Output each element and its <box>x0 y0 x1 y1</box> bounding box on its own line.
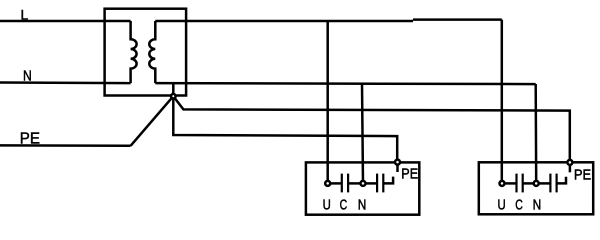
wire filter2 C4 jog up toward PE <box>557 177 566 184</box>
svg-text:C: C <box>340 197 348 214</box>
wire N drop to filter 1 <box>362 84 363 184</box>
earth node (N-PE bond junction) <box>171 94 176 99</box>
wire filter1 N to C2 <box>363 182 376 185</box>
filter box 1 enclosure <box>306 162 419 214</box>
wire PE branch 1 (node down then right to filter 1 PE) <box>173 96 397 160</box>
wire filter2 C3 to N <box>523 182 537 185</box>
capacitor C3 (filter 2, U-N) <box>517 174 523 193</box>
wire L secondary right segment (slight scan step) <box>413 18 502 21</box>
terminal N filter2 <box>534 181 539 186</box>
transformer T1 primary winding <box>131 21 137 83</box>
wire filter1 C2 jog up toward PE <box>383 177 393 184</box>
wire U drop to filter 2 <box>501 20 504 184</box>
wire N (neutral conductor from supply to transformer primary) <box>0 81 131 84</box>
svg-text:U: U <box>498 197 506 214</box>
wire filter2 U to C3 <box>502 182 516 185</box>
wire filter2 PE stub below terminal <box>569 165 572 173</box>
svg-text:PE: PE <box>401 165 418 182</box>
svg-text:L: L <box>21 6 29 22</box>
terminal PE filter1 <box>395 160 400 165</box>
wire filter1 C1 to N <box>348 182 363 185</box>
wire PE branch 2 (node diagonal then right to filter 2 PE) <box>173 96 570 160</box>
terminal PE filter2 <box>567 160 572 165</box>
wire earth node to PE conductor (diagonal bond) <box>131 96 174 146</box>
transformer T1 enclosure box <box>105 9 187 96</box>
capacitor C4 (filter 2, N-PE) <box>550 174 556 193</box>
wire N secondary (from secondary winding bottom, right) <box>155 83 535 84</box>
capacitor C2 (filter 1, N-PE) <box>377 174 383 193</box>
wire L secondary (from secondary winding top, right along top) <box>155 20 413 23</box>
wire PE (protective earth conductor) <box>0 144 131 147</box>
wire U drop to filter 1 <box>326 21 329 183</box>
terminal N filter1 <box>361 181 366 186</box>
filter box 2 enclosure <box>479 162 593 214</box>
svg-text:N: N <box>533 197 542 214</box>
wire N drop to filter 2 <box>534 84 537 183</box>
wire filter2 N to C4 <box>536 182 549 185</box>
svg-text:PE: PE <box>20 131 40 148</box>
svg-text:U: U <box>323 197 331 214</box>
wire filter1 PE stub below terminal <box>396 164 399 172</box>
svg-text:PE: PE <box>574 167 591 184</box>
capacitor C1 (filter 1, U-N) <box>342 174 348 193</box>
svg-text:C: C <box>515 197 523 214</box>
transformer T1 secondary winding <box>149 21 155 83</box>
terminal U filter2 <box>500 181 505 186</box>
svg-text:N: N <box>23 69 32 85</box>
wire filter1 U to C1 <box>328 182 341 185</box>
svg-text:N: N <box>358 197 367 214</box>
wire tap from secondary N to earth node <box>172 83 175 96</box>
wire L (line conductor from supply to transformer primary) <box>0 20 131 23</box>
terminal U filter1 <box>325 181 330 186</box>
